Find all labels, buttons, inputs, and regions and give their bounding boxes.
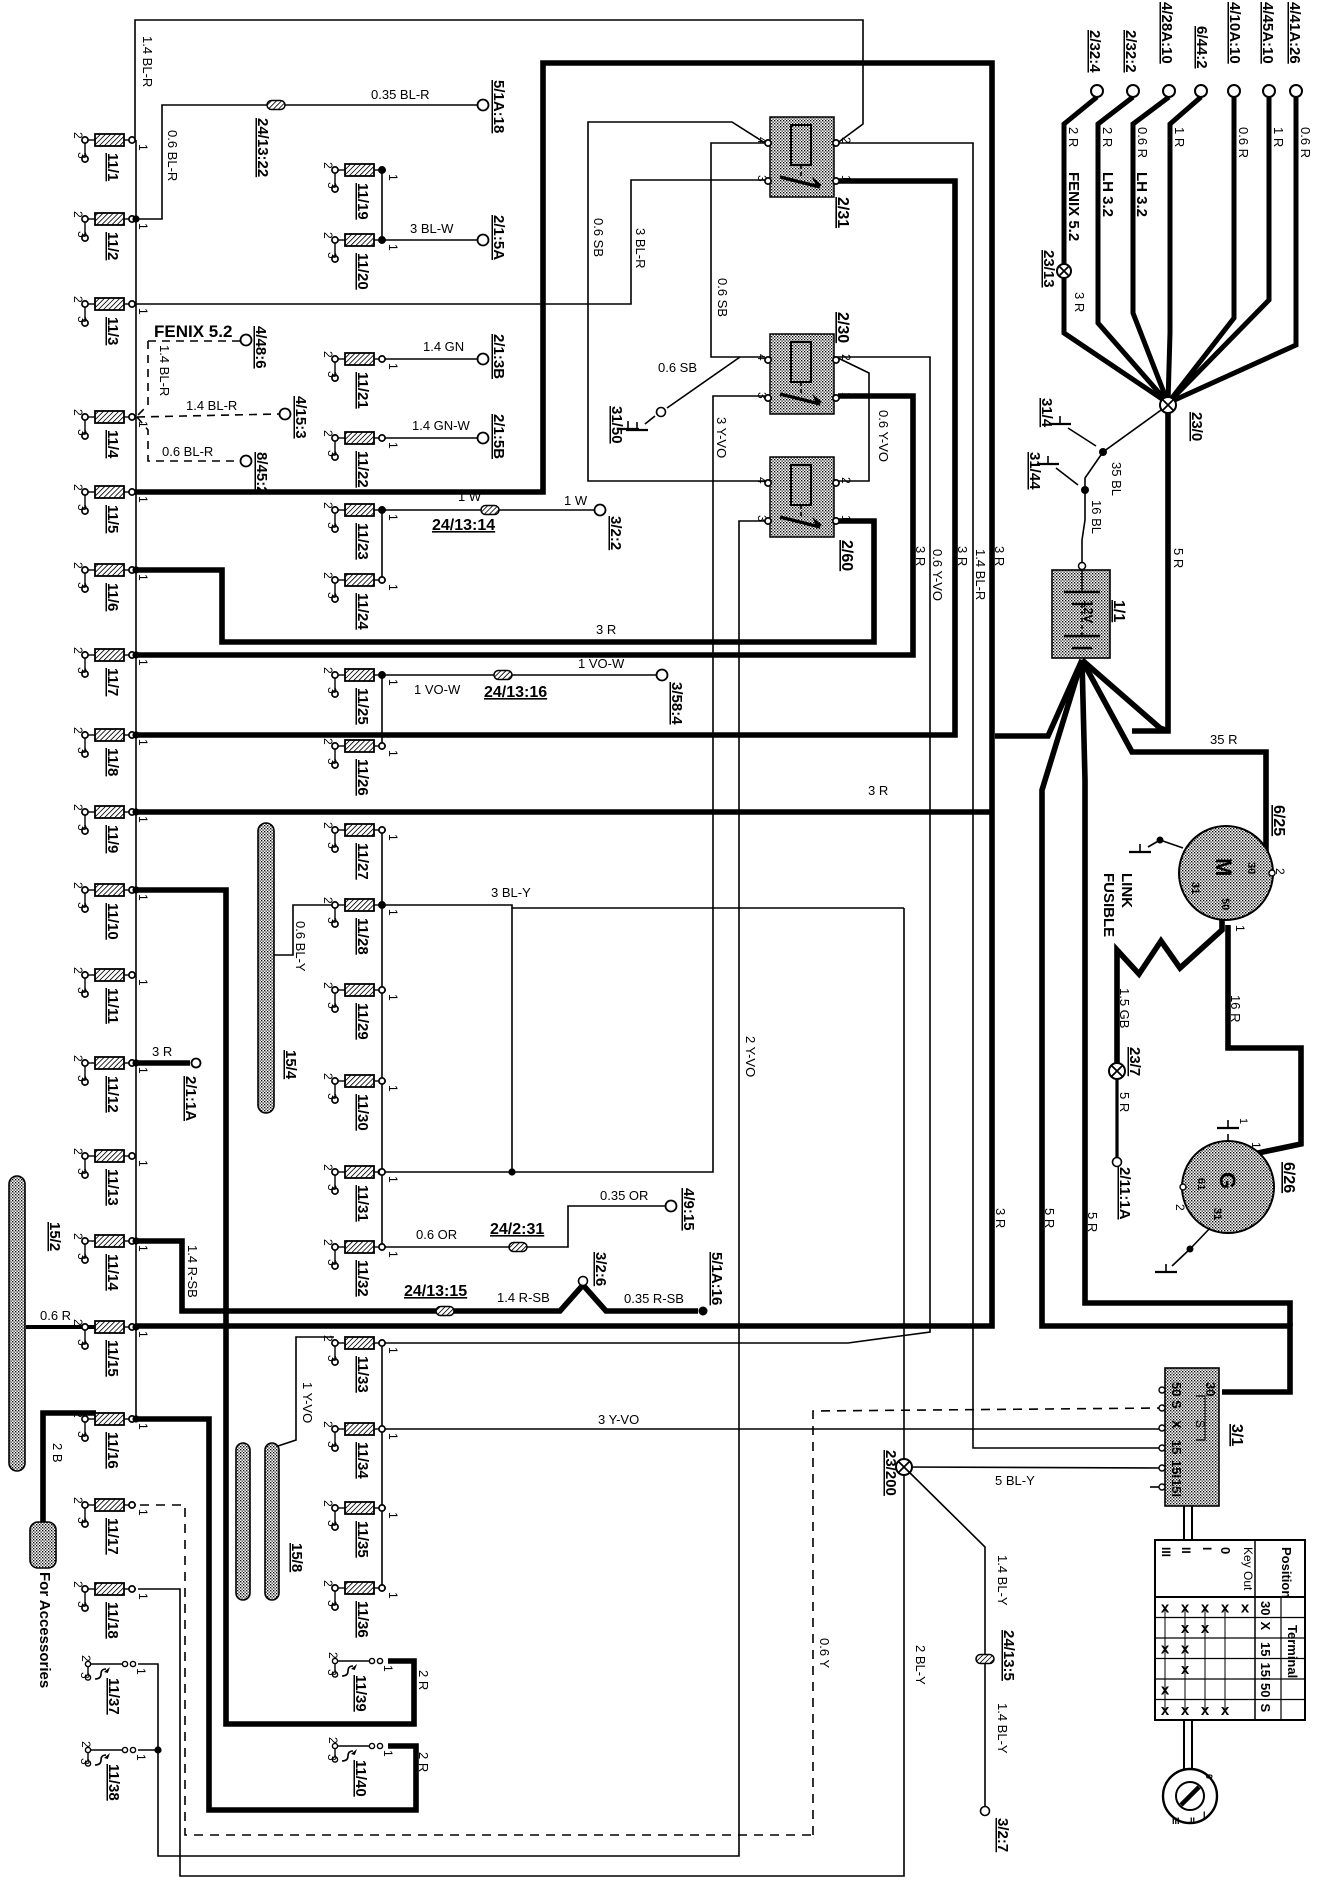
svg-text:11/31: 11/31 <box>354 1185 371 1222</box>
svg-text:31: 31 <box>1189 882 1201 894</box>
svg-text:3/2:6: 3/2:6 <box>592 1252 609 1286</box>
svg-text:FENIX 5.2: FENIX 5.2 <box>154 322 232 341</box>
svg-text:3: 3 <box>75 667 89 674</box>
svg-text:3/2:2: 3/2:2 <box>607 516 624 550</box>
svg-text:30: 30 <box>1203 1382 1218 1396</box>
svg-text:1: 1 <box>134 1754 148 1761</box>
svg-text:1.5 GB: 1.5 GB <box>1117 988 1132 1028</box>
svg-text:3: 3 <box>325 182 339 189</box>
svg-text:11/28: 11/28 <box>354 918 371 955</box>
svg-text:23/13: 23/13 <box>1040 250 1057 288</box>
svg-text:11/34: 11/34 <box>354 1442 371 1479</box>
svg-text:1.4 BL-R: 1.4 BL-R <box>157 345 172 396</box>
svg-text:1: 1 <box>386 1512 400 1519</box>
svg-text:2: 2 <box>321 1239 335 1246</box>
svg-text:3: 3 <box>75 1168 89 1175</box>
svg-text:3: 3 <box>75 1253 89 1260</box>
svg-text:15: 15 <box>1258 1642 1273 1656</box>
svg-text:11/5: 11/5 <box>104 505 121 533</box>
svg-text:1 R: 1 R <box>1271 127 1286 147</box>
svg-text:3: 3 <box>325 1600 339 1607</box>
svg-text:2: 2 <box>839 137 853 144</box>
svg-text:11/26: 11/26 <box>354 759 371 796</box>
svg-text:11/17: 11/17 <box>104 1518 121 1555</box>
svg-text:11/39: 11/39 <box>352 1675 369 1712</box>
svg-text:4: 4 <box>755 354 769 361</box>
svg-text:LH 3.2: LH 3.2 <box>1133 172 1150 217</box>
svg-text:3: 3 <box>75 152 89 159</box>
svg-text:1: 1 <box>1233 925 1247 932</box>
svg-text:3: 3 <box>325 522 339 529</box>
svg-text:1: 1 <box>136 574 150 581</box>
svg-text:2/1:3B: 2/1:3B <box>490 334 507 379</box>
svg-text:6/26: 6/26 <box>1280 1162 1297 1193</box>
svg-text:50: 50 <box>1169 1382 1184 1396</box>
svg-text:3/1: 3/1 <box>1228 1424 1245 1446</box>
svg-text:3: 3 <box>325 1355 339 1362</box>
svg-text:2: 2 <box>71 882 85 889</box>
svg-text:0: 0 <box>1218 1547 1233 1554</box>
svg-text:3: 3 <box>325 371 339 378</box>
svg-text:50: 50 <box>1258 1683 1273 1697</box>
svg-text:3 Y-VO: 3 Y-VO <box>598 1412 639 1427</box>
svg-text:24/13:22: 24/13:22 <box>254 118 271 177</box>
svg-text:2: 2 <box>71 647 85 654</box>
svg-text:2 BL-Y: 2 BL-Y <box>913 1645 928 1685</box>
svg-text:3 BL-Y: 3 BL-Y <box>491 885 531 900</box>
svg-text:x: x <box>1241 1599 1250 1616</box>
svg-text:2: 2 <box>326 1652 340 1659</box>
svg-text:III: III <box>1172 1816 1180 1826</box>
svg-text:15/2: 15/2 <box>46 1222 63 1251</box>
svg-text:16 R: 16 R <box>1228 995 1243 1022</box>
svg-text:31/4: 31/4 <box>1038 398 1055 428</box>
svg-text:I: I <box>1200 1547 1214 1550</box>
svg-text:11/36: 11/36 <box>354 1601 371 1638</box>
svg-text:3: 3 <box>75 824 89 831</box>
svg-text:2: 2 <box>71 1497 85 1504</box>
svg-text:1: 1 <box>136 421 150 428</box>
svg-text:0.6 R: 0.6 R <box>1236 127 1251 158</box>
svg-text:1: 1 <box>136 979 150 986</box>
svg-text:1.4 BL-Y: 1.4 BL-Y <box>995 1703 1010 1754</box>
svg-text:11/25: 11/25 <box>354 688 371 725</box>
svg-text:3: 3 <box>325 1520 339 1527</box>
svg-text:2: 2 <box>321 1421 335 1428</box>
svg-text:2 R: 2 R <box>416 1670 431 1690</box>
svg-text:2: 2 <box>326 1737 340 1744</box>
svg-text:4/48:6: 4/48:6 <box>252 326 269 369</box>
svg-text:1 W: 1 W <box>564 493 588 508</box>
svg-text:1: 1 <box>136 659 150 666</box>
svg-text:2: 2 <box>321 232 335 239</box>
svg-text:15/8: 15/8 <box>288 1543 305 1572</box>
svg-text:31: 31 <box>1211 1208 1223 1220</box>
svg-text:1: 1 <box>386 1347 400 1354</box>
svg-text:1: 1 <box>386 363 400 370</box>
svg-text:2: 2 <box>321 1164 335 1171</box>
svg-text:2: 2 <box>71 1319 85 1326</box>
svg-text:2: 2 <box>71 727 85 734</box>
svg-text:11/13: 11/13 <box>104 1169 121 1206</box>
svg-text:0.6 Y-VO: 0.6 Y-VO <box>930 549 945 601</box>
svg-text:11/1: 11/1 <box>104 153 121 181</box>
svg-text:1.4 BL-R: 1.4 BL-R <box>973 549 988 600</box>
svg-text:2: 2 <box>321 822 335 829</box>
svg-text:0.35 OR: 0.35 OR <box>600 1188 648 1203</box>
svg-text:2: 2 <box>71 484 85 491</box>
svg-text:1 VO-W: 1 VO-W <box>414 682 461 697</box>
svg-text:2 R: 2 R <box>416 1752 431 1772</box>
svg-text:1 Y-VO: 1 Y-VO <box>300 1382 315 1423</box>
svg-text:11/33: 11/33 <box>354 1356 371 1393</box>
svg-text:2: 2 <box>321 430 335 437</box>
svg-text:1.4 BL-R: 1.4 BL-R <box>186 398 237 413</box>
svg-text:11/32: 11/32 <box>354 1260 371 1297</box>
svg-text:2: 2 <box>79 1655 93 1662</box>
svg-text:12V: 12V <box>1081 600 1096 623</box>
svg-text:LINK: LINK <box>1118 873 1135 908</box>
svg-text:3: 3 <box>75 1601 89 1608</box>
svg-text:11/37: 11/37 <box>105 1678 122 1715</box>
svg-text:0.6 R: 0.6 R <box>1298 127 1313 158</box>
svg-text:1: 1 <box>136 223 150 230</box>
svg-text:3: 3 <box>75 1517 89 1524</box>
svg-text:1: 1 <box>136 1509 150 1516</box>
svg-text:2: 2 <box>71 967 85 974</box>
svg-text:0.6 Y-VO: 0.6 Y-VO <box>876 410 891 462</box>
svg-text:1: 1 <box>386 679 400 686</box>
svg-text:3 R: 3 R <box>868 783 888 798</box>
svg-text:1: 1 <box>386 244 400 251</box>
svg-text:2/11:1A: 2/11:1A <box>1116 1167 1133 1220</box>
svg-text:4: 4 <box>755 477 769 484</box>
svg-text:1.4 R-SB: 1.4 R-SB <box>185 1245 200 1298</box>
svg-text:1: 1 <box>136 1593 150 1600</box>
svg-text:24/13:16: 24/13:16 <box>484 684 547 701</box>
svg-text:11/10: 11/10 <box>104 903 121 940</box>
svg-text:1: 1 <box>136 144 150 151</box>
svg-text:11/27: 11/27 <box>354 843 371 880</box>
svg-text:11/23: 11/23 <box>354 523 371 560</box>
svg-text:11/35: 11/35 <box>354 1521 371 1558</box>
svg-text:4/28A:10: 4/28A:10 <box>1158 2 1175 64</box>
svg-text:2: 2 <box>321 982 335 989</box>
svg-text:3 R: 3 R <box>913 546 928 566</box>
svg-text:1: 1 <box>386 1251 400 1258</box>
svg-text:2: 2 <box>71 1148 85 1155</box>
svg-text:11/14: 11/14 <box>104 1254 121 1291</box>
svg-text:0.6 SB: 0.6 SB <box>591 218 606 257</box>
svg-text:1: 1 <box>381 1750 395 1757</box>
svg-text:2: 2 <box>839 477 853 484</box>
svg-text:3: 3 <box>325 842 339 849</box>
svg-text:11/21: 11/21 <box>354 372 371 409</box>
svg-text:11/11: 11/11 <box>104 988 121 1024</box>
svg-text:0.6 BL-Y: 0.6 BL-Y <box>293 921 308 972</box>
svg-text:1: 1 <box>386 174 400 181</box>
svg-text:3: 3 <box>325 917 339 924</box>
svg-text:5/1A:18: 5/1A:18 <box>490 80 507 133</box>
svg-text:FENIX 5.2: FENIX 5.2 <box>1065 172 1082 241</box>
svg-text:2: 2 <box>71 211 85 218</box>
svg-text:3: 3 <box>75 747 89 754</box>
svg-text:2/1:5A: 2/1:5A <box>490 215 507 260</box>
svg-text:1: 1 <box>386 584 400 591</box>
svg-text:2/1:1A: 2/1:1A <box>182 1076 199 1121</box>
svg-text:6/44:2: 6/44:2 <box>1193 26 1210 69</box>
svg-text:11/19: 11/19 <box>354 183 371 220</box>
svg-text:0.35 BL-R: 0.35 BL-R <box>371 87 430 102</box>
svg-text:2/32:2: 2/32:2 <box>1122 30 1139 73</box>
svg-text:11/38: 11/38 <box>105 1764 122 1801</box>
svg-text:2: 2 <box>71 1233 85 1240</box>
svg-text:2/60: 2/60 <box>838 540 855 571</box>
svg-text:3: 3 <box>78 1758 92 1765</box>
svg-text:31/44: 31/44 <box>1026 452 1043 490</box>
svg-text:3: 3 <box>325 252 339 259</box>
svg-text:2: 2 <box>1273 868 1287 875</box>
svg-text:3: 3 <box>75 231 89 238</box>
svg-text:3: 3 <box>325 1184 339 1191</box>
svg-text:2/30: 2/30 <box>834 312 851 343</box>
svg-text:1: 1 <box>386 1433 400 1440</box>
svg-text:Position: Position <box>1279 1547 1294 1598</box>
svg-text:1: 1 <box>136 1423 150 1430</box>
svg-text:6/25: 6/25 <box>1270 805 1287 836</box>
svg-text:3: 3 <box>325 1669 339 1676</box>
svg-text:3: 3 <box>755 515 769 522</box>
svg-text:2: 2 <box>71 409 85 416</box>
svg-text:3 BL-W: 3 BL-W <box>410 221 454 236</box>
svg-text:2: 2 <box>71 1055 85 1062</box>
svg-text:1: 1 <box>839 175 853 182</box>
svg-text:11/8: 11/8 <box>104 748 121 776</box>
svg-text:1: 1 <box>386 834 400 841</box>
svg-text:1: 1 <box>136 1245 150 1252</box>
svg-text:1.4 BL-Y: 1.4 BL-Y <box>995 1555 1010 1606</box>
svg-text:15I: 15I <box>1169 1479 1184 1497</box>
svg-text:1: 1 <box>839 515 853 522</box>
svg-text:2/31: 2/31 <box>834 197 851 228</box>
svg-text:1: 1 <box>386 514 400 521</box>
svg-text:S: S <box>1258 1704 1273 1713</box>
svg-text:5 R: 5 R <box>1085 1212 1100 1232</box>
svg-text:1: 1 <box>136 1067 150 1074</box>
svg-text:11/29: 11/29 <box>354 1003 371 1040</box>
svg-text:3 Y-VO: 3 Y-VO <box>714 417 729 458</box>
svg-text:3: 3 <box>75 1431 89 1438</box>
svg-text:2: 2 <box>321 1335 335 1342</box>
svg-text:0.6 R: 0.6 R <box>40 1308 71 1323</box>
svg-text:3: 3 <box>75 1339 89 1346</box>
svg-text:2 B: 2 B <box>50 1443 65 1463</box>
svg-text:III: III <box>1159 1547 1173 1557</box>
svg-text:1: 1 <box>1237 1118 1249 1124</box>
svg-text:3: 3 <box>325 758 339 765</box>
svg-text:5 R: 5 R <box>1117 1092 1132 1112</box>
svg-text:2 Y-VO: 2 Y-VO <box>743 1036 758 1077</box>
svg-text:X: X <box>1169 1420 1184 1429</box>
svg-text:1 VO-W: 1 VO-W <box>578 656 625 671</box>
svg-text:30: 30 <box>1245 862 1257 874</box>
svg-text:0.6 SB: 0.6 SB <box>658 360 697 375</box>
svg-text:4/15:3: 4/15:3 <box>292 396 309 439</box>
svg-text:Terminal: Terminal <box>1285 1625 1300 1678</box>
svg-text:0.35 R-SB: 0.35 R-SB <box>624 1291 684 1306</box>
svg-text:24/13:5: 24/13:5 <box>1000 1630 1017 1681</box>
svg-text:1: 1 <box>136 496 150 503</box>
svg-text:3: 3 <box>325 1754 339 1761</box>
svg-text:1.4 GN-W: 1.4 GN-W <box>412 418 471 433</box>
svg-text:1: 1 <box>386 442 400 449</box>
svg-text:15/4: 15/4 <box>282 1050 299 1080</box>
svg-text:2: 2 <box>321 1073 335 1080</box>
svg-text:2: 2 <box>1173 1204 1187 1211</box>
svg-text:11/9: 11/9 <box>104 825 121 853</box>
svg-text:3: 3 <box>75 316 89 323</box>
svg-text:3 R: 3 R <box>596 622 616 637</box>
svg-text:11/40: 11/40 <box>352 1760 369 1797</box>
svg-text:3 R: 3 R <box>1072 292 1087 312</box>
svg-text:4: 4 <box>755 137 769 144</box>
svg-text:2: 2 <box>71 1581 85 1588</box>
svg-text:15: 15 <box>1169 1440 1184 1454</box>
svg-text:3: 3 <box>75 582 89 589</box>
svg-text:2: 2 <box>321 1580 335 1587</box>
svg-text:3 R: 3 R <box>992 546 1007 566</box>
svg-text:15I: 15I <box>1258 1663 1273 1681</box>
svg-text:15I: 15I <box>1169 1460 1184 1478</box>
svg-text:3: 3 <box>325 1002 339 1009</box>
svg-text:X: X <box>1258 1622 1273 1631</box>
svg-text:5 R: 5 R <box>1042 1208 1057 1228</box>
svg-text:3: 3 <box>325 1441 339 1448</box>
svg-text:4/45A:10: 4/45A:10 <box>1259 2 1276 64</box>
svg-text:3: 3 <box>325 450 339 457</box>
svg-text:FUSIBLE: FUSIBLE <box>1100 873 1117 937</box>
svg-text:3/58:4: 3/58:4 <box>668 682 685 725</box>
svg-text:2: 2 <box>321 1500 335 1507</box>
svg-text:3: 3 <box>75 987 89 994</box>
svg-text:2: 2 <box>79 1741 93 1748</box>
svg-text:1: 1 <box>136 816 150 823</box>
svg-text:G: G <box>1215 1172 1240 1189</box>
svg-text:1/1: 1/1 <box>1110 600 1127 622</box>
svg-text:3/2:7: 3/2:7 <box>994 1818 1011 1852</box>
svg-text:24/13:14: 24/13:14 <box>432 517 495 534</box>
svg-text:11/20: 11/20 <box>354 253 371 290</box>
svg-text:2: 2 <box>71 296 85 303</box>
svg-text:4/10A:10: 4/10A:10 <box>1226 2 1243 64</box>
svg-text:II: II <box>1179 1547 1193 1554</box>
svg-text:2/32:4: 2/32:4 <box>1086 30 1103 73</box>
svg-text:0.6 BL-R: 0.6 BL-R <box>162 444 213 459</box>
svg-text:2: 2 <box>71 562 85 569</box>
svg-text:1: 1 <box>136 739 150 746</box>
svg-text:3: 3 <box>755 175 769 182</box>
svg-text:1: 1 <box>386 750 400 757</box>
svg-text:3 R: 3 R <box>993 1208 1008 1228</box>
svg-text:1.4 R-SB: 1.4 R-SB <box>497 1290 550 1305</box>
svg-text:3: 3 <box>325 1259 339 1266</box>
svg-text:1: 1 <box>136 1160 150 1167</box>
svg-text:31/50: 31/50 <box>608 406 625 444</box>
svg-text:11/3: 11/3 <box>104 317 121 345</box>
svg-text:11/24: 11/24 <box>354 593 371 630</box>
svg-text:4/9:15: 4/9:15 <box>680 1188 697 1231</box>
svg-text:0.6 R: 0.6 R <box>1135 127 1150 158</box>
svg-text:2: 2 <box>71 132 85 139</box>
svg-text:1: 1 <box>134 1668 148 1675</box>
svg-text:35 R: 35 R <box>1210 732 1237 747</box>
svg-text:5/1A:16: 5/1A:16 <box>708 1252 725 1305</box>
svg-text:3: 3 <box>75 1075 89 1082</box>
svg-text:50: 50 <box>1219 898 1231 910</box>
svg-text:5 R: 5 R <box>1171 548 1186 568</box>
svg-text:24/13:15: 24/13:15 <box>404 1283 467 1300</box>
svg-text:3: 3 <box>75 902 89 909</box>
svg-text:2: 2 <box>321 572 335 579</box>
svg-text:3: 3 <box>325 1093 339 1100</box>
svg-text:1: 1 <box>1249 1142 1263 1149</box>
svg-text:1: 1 <box>136 308 150 315</box>
svg-text:11/15: 11/15 <box>104 1340 121 1377</box>
svg-text:0.6 Y: 0.6 Y <box>817 1638 832 1668</box>
svg-text:5 BL-Y: 5 BL-Y <box>995 1473 1035 1488</box>
svg-text:30: 30 <box>1258 1601 1273 1615</box>
svg-text:11/7: 11/7 <box>104 668 121 696</box>
svg-text:Key Out: Key Out <box>1241 1547 1255 1591</box>
svg-text:2: 2 <box>71 1411 85 1418</box>
svg-text:0.6 BL-R: 0.6 BL-R <box>165 130 180 181</box>
svg-text:0.6 SB: 0.6 SB <box>715 278 730 317</box>
svg-text:11/6: 11/6 <box>104 583 121 611</box>
svg-text:2: 2 <box>321 738 335 745</box>
svg-text:16 BL: 16 BL <box>1089 500 1104 534</box>
svg-text:3: 3 <box>75 504 89 511</box>
svg-text:61: 61 <box>1195 1178 1207 1190</box>
svg-text:M: M <box>1211 858 1236 876</box>
svg-text:3 R: 3 R <box>152 1044 172 1059</box>
svg-text:0.6 OR: 0.6 OR <box>416 1227 457 1242</box>
svg-text:1: 1 <box>839 392 853 399</box>
svg-text:2: 2 <box>321 351 335 358</box>
svg-text:3 R: 3 R <box>955 546 970 566</box>
svg-text:3: 3 <box>325 687 339 694</box>
svg-text:1 W: 1 W <box>458 489 482 504</box>
svg-text:S: S <box>1169 1400 1184 1409</box>
svg-text:11/30: 11/30 <box>354 1094 371 1131</box>
svg-text:3 BL-R: 3 BL-R <box>633 228 648 268</box>
svg-text:11/2: 11/2 <box>104 232 121 260</box>
svg-text:1: 1 <box>136 894 150 901</box>
svg-text:11/18: 11/18 <box>104 1602 121 1639</box>
svg-text:1.4 GN: 1.4 GN <box>423 339 464 354</box>
svg-text:For Accessories: For Accessories <box>36 1572 53 1688</box>
svg-text:2: 2 <box>839 354 853 361</box>
svg-text:0: 0 <box>1204 1774 1214 1779</box>
svg-text:1: 1 <box>386 994 400 1001</box>
svg-text:2: 2 <box>321 502 335 509</box>
svg-text:1: 1 <box>386 1592 400 1599</box>
svg-text:2: 2 <box>71 804 85 811</box>
svg-text:1 R: 1 R <box>1172 127 1187 147</box>
svg-text:4/41A:26: 4/41A:26 <box>1286 2 1303 64</box>
svg-text:1: 1 <box>136 1331 150 1338</box>
svg-text:2 R: 2 R <box>1100 127 1115 147</box>
svg-text:II: II <box>1190 1816 1195 1826</box>
